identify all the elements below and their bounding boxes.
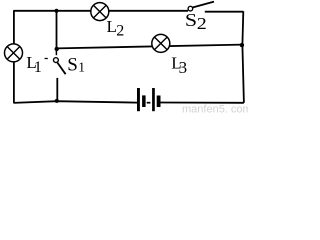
tick mark near L1 bbox=[45, 58, 48, 60]
svg-text:2: 2 bbox=[116, 23, 124, 40]
junction: top node bbox=[54, 9, 58, 13]
battery B1 (two cells) bbox=[137, 88, 161, 111]
svg-text:S: S bbox=[185, 11, 197, 31]
wire: bottom rail left (to battery) bbox=[13, 101, 137, 103]
wire: middle branch (center node to right rail) bbox=[57, 45, 242, 49]
wire: top rail (left corner to S2 pivot) bbox=[14, 10, 188, 12]
svg-text:3: 3 bbox=[179, 58, 188, 77]
battery B1 inter-cell link bbox=[147, 102, 151, 104]
lamp L2 bbox=[91, 3, 109, 21]
wire: bottom rail right (battery to right corner) bbox=[160, 102, 244, 104]
svg-text:S: S bbox=[67, 55, 78, 76]
wire: left rail bbox=[13, 10, 15, 103]
battery B1 cell 1 positive plate bbox=[137, 88, 140, 111]
svg-text:1: 1 bbox=[34, 59, 42, 76]
svg-text:manfen5. com: manfen5. com bbox=[182, 104, 248, 114]
battery B1 cell 2 negative plate bbox=[157, 96, 161, 108]
lamp L1 bbox=[5, 44, 23, 62]
junction: bottom node bbox=[55, 99, 59, 103]
wire: right rail bbox=[242, 11, 244, 103]
switch S2 bbox=[188, 2, 214, 11]
junction: center node bbox=[55, 47, 59, 51]
junction: right middle node bbox=[240, 43, 244, 47]
wire: center vertical branch (top junction down to S1) bbox=[56, 11, 58, 49]
lamp L3 bbox=[152, 34, 170, 52]
svg-text:1: 1 bbox=[78, 60, 85, 75]
wire: top rail right of S2 (fixed contact to right corner) bbox=[205, 11, 243, 13]
svg-text:2: 2 bbox=[197, 14, 207, 33]
battery B1 cell 1 negative plate bbox=[142, 95, 146, 107]
battery B1 cell 2 positive plate bbox=[152, 88, 155, 111]
switch S1 bbox=[54, 49, 66, 101]
